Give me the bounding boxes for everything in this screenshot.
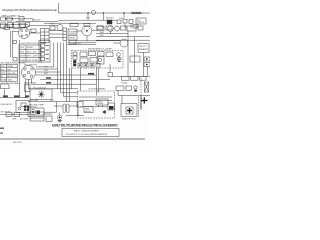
svg-text:PUR: PUR (51, 24, 56, 26)
regulator box (70, 24, 78, 27)
svg-text:PUR: PUR (44, 70, 49, 72)
wire drop from hour meter (86, 36, 88, 41)
relay box row 3 (140, 76, 147, 80)
wire mid B (40, 79, 110, 81)
neutral switch circle (30, 109, 35, 114)
diode box 2 (14, 112, 20, 116)
small mark left (0, 128, 4, 129)
svg-text:FLASHER: FLASHER (69, 30, 78, 33)
tail light box 2 (144, 63, 150, 67)
meter box small (121, 26, 127, 30)
wire (49, 30, 63, 32)
wire (49, 33, 63, 35)
small box right of fuse holder (46, 116, 52, 122)
svg-text:650 (S/N UP TO 100,000) WIRING: 650 (S/N UP TO 100,000) WIRING HARNESS (66, 133, 108, 136)
cluster lamp dark 1 (73, 60, 76, 62)
light switch positions table (19, 45, 41, 62)
cluster lamp sq 2 (84, 63, 88, 67)
small box (133, 25, 137, 29)
svg-text:RELAY: RELAY (69, 37, 76, 40)
wire drop to sensor (59, 113, 61, 116)
junction dot x78 (77, 115, 79, 117)
sensor ground tick (118, 61, 120, 63)
starter motor circle (126, 107, 133, 114)
wire in control 1 (79, 96, 112, 98)
wire lower long (28, 101, 78, 103)
cluster box 3 (98, 52, 105, 57)
fuse F3 (129, 20, 133, 24)
hour meter M1 (82, 26, 92, 36)
dashed line right (140, 78, 142, 96)
wire drop at junction (123, 13, 125, 18)
right mid box 2 (126, 86, 132, 90)
svg-text:W/ BAT DISC: W/ BAT DISC (1, 79, 13, 82)
pto switch star symbol (38, 91, 45, 98)
relay K1 (68, 29, 77, 34)
svg-text:Wiring diagram 650, 750, 850 a: Wiring diagram 650, 750, 850 and 950 Tra… (2, 9, 58, 12)
flasher unit (14, 22, 19, 29)
svg-text:RELAY: RELAY (98, 102, 105, 105)
relay box row 2 (131, 76, 139, 80)
wire vertical v3 (64, 43, 78, 97)
cluster box 2 (89, 52, 96, 56)
lamp L1 (1, 17, 6, 21)
cluster pin strip (73, 52, 77, 55)
svg-text:9M-74-07: 9M-74-07 (13, 142, 23, 144)
safety switch box left (1, 84, 9, 89)
wire from capsule (69, 105, 78, 107)
fuse F2 (123, 20, 127, 24)
cluster lamp sq 1 (78, 63, 82, 67)
svg-text:R-BLK: R-BLK (119, 18, 125, 20)
wire BAT (36, 68, 58, 70)
wire (28, 25, 58, 27)
key switch S2 rear view (22, 66, 36, 80)
neutral start switch box (28, 108, 44, 117)
fuel gauge circle (120, 39, 128, 47)
mid wire label blob B (88, 73, 94, 75)
wire vertical v6 (70, 68, 72, 89)
cluster box 4 (106, 52, 113, 57)
connector capsule 1 (63, 104, 66, 113)
wire vertical r3 (143, 52, 145, 76)
box above control (130, 56, 140, 62)
wire drop (130, 24, 132, 29)
sensor circle bottom (57, 115, 62, 120)
wire to capsule (54, 105, 63, 107)
connector block left (41, 29, 50, 43)
wire lower mid (66, 114, 84, 116)
cluster lamp sq 3 (90, 63, 94, 67)
regulator box (16, 101, 30, 113)
wire (49, 37, 63, 39)
cluster box 6 (90, 58, 98, 63)
svg-text:BRT + WHT: BRT + WHT (27, 56, 39, 58)
harness tap box (13, 41, 17, 44)
wire (92, 29, 97, 31)
wire vertical to neutral (56, 102, 58, 113)
cluster lamp dark 2 (73, 64, 76, 66)
relay K3 (69, 41, 76, 45)
key switch positions table (1, 64, 18, 81)
wire (96, 39, 150, 41)
wire horizontal under relays (67, 44, 97, 46)
svg-text:RED-BLK: RED-BLK (106, 18, 115, 20)
svg-text:WHT ROAD: WHT ROAD (27, 59, 38, 62)
wire key drop 2 (29, 80, 79, 89)
wire ST (36, 74, 97, 76)
tail light box 1 (144, 57, 150, 61)
ignition coil circle (108, 26, 114, 32)
wire vertical v5 (68, 68, 70, 102)
wire drop from safety (4, 89, 6, 98)
svg-text:RED: RED (100, 32, 105, 34)
wire drops right (117, 90, 119, 95)
gauge box 2 (106, 26, 112, 30)
wire vertical feed (59, 3, 151, 13)
connector small (50, 26, 55, 30)
diode D1 (102, 110, 105, 113)
wire bottom row (0, 114, 30, 116)
cluster box 5 (80, 58, 88, 63)
light switch connector (31, 29, 36, 32)
hour meter housing (84, 24, 90, 27)
wire vertical r1 (127, 31, 129, 76)
cluster sensor box (97, 57, 104, 65)
regulator dark cluster (24, 106, 26, 108)
connector box (97, 26, 103, 29)
junction dots (5, 18, 6, 19)
neutral switch dark blob (37, 111, 41, 115)
wire label blob 2 (14, 95, 20, 97)
svg-text:RUN: RUN (1, 73, 6, 75)
wire right of junction (112, 75, 150, 77)
wire vertical v8 (95, 68, 97, 96)
ground symbol (58, 120, 62, 122)
wire (5, 19, 33, 22)
wire label blob D (46, 77, 51, 79)
control inner wire (80, 106, 108, 108)
junction box mid right (108, 72, 112, 76)
wire label blob 1 (3, 95, 8, 97)
connector capsule 2 (67, 104, 70, 113)
svg-text:BLK + WT: BLK + WT (27, 51, 37, 53)
key switch feed boxes (117, 20, 121, 24)
right mid box 1 (116, 86, 124, 90)
wire to gauge (113, 42, 120, 44)
harness end connector (13, 58, 17, 62)
wire vertical left short (53, 43, 55, 67)
svg-text:RELAY: RELAY (122, 81, 129, 84)
svg-text:BAT IGN ST: BAT IGN ST (7, 75, 18, 78)
ignition unit box (136, 18, 146, 24)
lamp L5 (20, 23, 25, 28)
relay K2 (68, 36, 77, 41)
wire drops in control (98, 105, 100, 107)
wire vertical v1 (57, 43, 59, 89)
sensor symbol right (134, 86, 137, 89)
svg-text:REGULATOR: REGULATOR (1, 103, 13, 106)
wire long vertical (19, 40, 21, 98)
svg-text:BLK WHT: BLK WHT (30, 100, 39, 102)
wire under hour meter 2 (68, 42, 96, 44)
wire key drop 3 (32, 79, 97, 84)
wire drop 2 (103, 13, 105, 20)
control array dashed box (78, 91, 115, 118)
harness double line (10, 31, 12, 57)
wire (96, 33, 128, 35)
fuse block (39, 41, 50, 63)
wire label blob 3 (25, 95, 29, 97)
light switch S1 rear view (19, 28, 30, 39)
fuse F1 dark (107, 20, 112, 24)
svg-text:BLK-RED: BLK-RED (73, 43, 82, 45)
wire vertical v7 (80, 68, 82, 91)
wire vertical v9 (97, 68, 99, 93)
svg-text:DIM: DIM (20, 51, 24, 53)
wire under hour meter 1 (76, 40, 120, 42)
wire drop (87, 13, 89, 20)
svg-text:CIRCUIT: CIRCUIT (139, 46, 148, 48)
battery cell line (140, 96, 142, 109)
cluster lamp sq 4 (96, 63, 100, 67)
wire (96, 36, 150, 38)
svg-text:GRN: GRN (12, 118, 17, 120)
cluster indicator circle 1 (117, 53, 121, 57)
fuse holder box (30, 112, 44, 121)
svg-text:DELAY: DELAY (85, 110, 92, 113)
svg-text:BLK WHT: BLK WHT (20, 118, 29, 120)
alternator G1 (57, 25, 63, 31)
cluster box 1 (80, 52, 87, 57)
svg-text:BREAKER: BREAKER (139, 48, 149, 51)
relay box row 1 (122, 76, 130, 80)
pto switch box (30, 89, 52, 99)
junction dot (87, 12, 89, 14)
wire vertical r4 (147, 67, 149, 77)
time delay box (84, 107, 93, 113)
wire vertical x78 (77, 102, 79, 116)
lamp L4 (8, 23, 13, 28)
instrument cluster dashed box (72, 50, 124, 68)
battery plus symbol (141, 97, 147, 103)
wire IGN (36, 71, 61, 73)
gauge sender box (97, 26, 104, 31)
svg-text:SWITCH: SWITCH (137, 22, 145, 24)
svg-text:WITH KEY RELEASED: WITH KEY RELEASED (1, 82, 21, 85)
lamp circle top (115, 26, 120, 31)
wire drop (124, 24, 126, 29)
circuit breaker box (138, 44, 149, 53)
svg-text:NONE: NONE (7, 66, 13, 68)
wire (44, 113, 52, 115)
svg-text:EARLY 650, 750, 850 AND 950 EL: EARLY 650, 750, 850 AND 950 ELECTRICAL S… (52, 124, 119, 128)
svg-text:BAT+IGN: BAT+IGN (7, 72, 16, 75)
sensor circle (118, 57, 121, 60)
lamp connector box (4, 26, 10, 30)
wire from neutral switch (44, 111, 57, 113)
wire (0, 26, 28, 28)
wire vertical v2 (61, 43, 78, 93)
lamp L3 (1, 23, 6, 28)
connector block right (63, 28, 67, 41)
control inner box left (77, 102, 83, 108)
wire (77, 30, 82, 32)
lamp B1 on feed (91, 10, 95, 14)
wire bottom of fuse area (36, 66, 54, 68)
svg-text:NONE: NONE (27, 47, 33, 49)
wire label blob E (46, 82, 51, 84)
wire (16, 21, 58, 23)
wire horizontal right (118, 95, 150, 97)
connector box right of pto (25, 85, 31, 92)
wire (0, 23, 28, 25)
svg-text:(REAR VIEW): (REAR VIEW) (24, 81, 36, 84)
diode box 1 (6, 112, 12, 116)
solenoid box dark (108, 103, 115, 110)
wire (30, 29, 32, 31)
bottom rule (0, 138, 145, 140)
run relay box (96, 99, 108, 105)
wire (30, 32, 41, 34)
wire (58, 19, 117, 21)
ground wire BLK (0, 97, 28, 99)
svg-text:ACC: ACC (1, 68, 6, 71)
wire vertical v4 (66, 41, 68, 102)
svg-text:EARLY CHASSIS NUMBER: EARLY CHASSIS NUMBER (74, 130, 99, 133)
starter motor box (121, 104, 137, 117)
box top right 2 (138, 26, 143, 30)
wire vertical v10 (109, 64, 111, 72)
bottom left dash (0, 133, 3, 134)
lamp L2 (7, 17, 12, 21)
svg-text:START MOTOR: START MOTOR (122, 118, 136, 121)
wire in control 2 (79, 100, 112, 102)
box top right (127, 26, 136, 31)
fusible link (131, 11, 142, 13)
wire vertical r2 (134, 37, 136, 77)
svg-text:WORK: WORK (20, 56, 27, 58)
wire (13, 31, 19, 33)
wire key drop 1 (25, 79, 27, 98)
connector J2 (26, 23, 30, 27)
svg-text:CONTROL ARRAY: CONTROL ARRAY (88, 87, 106, 90)
connector J1 (19, 17, 24, 21)
cluster indicator circle 2 (117, 58, 120, 61)
svg-text:WT-BLK: WT-BLK (34, 20, 42, 22)
wire (44, 22, 96, 24)
wire drop (137, 24, 139, 28)
note box (62, 128, 119, 136)
